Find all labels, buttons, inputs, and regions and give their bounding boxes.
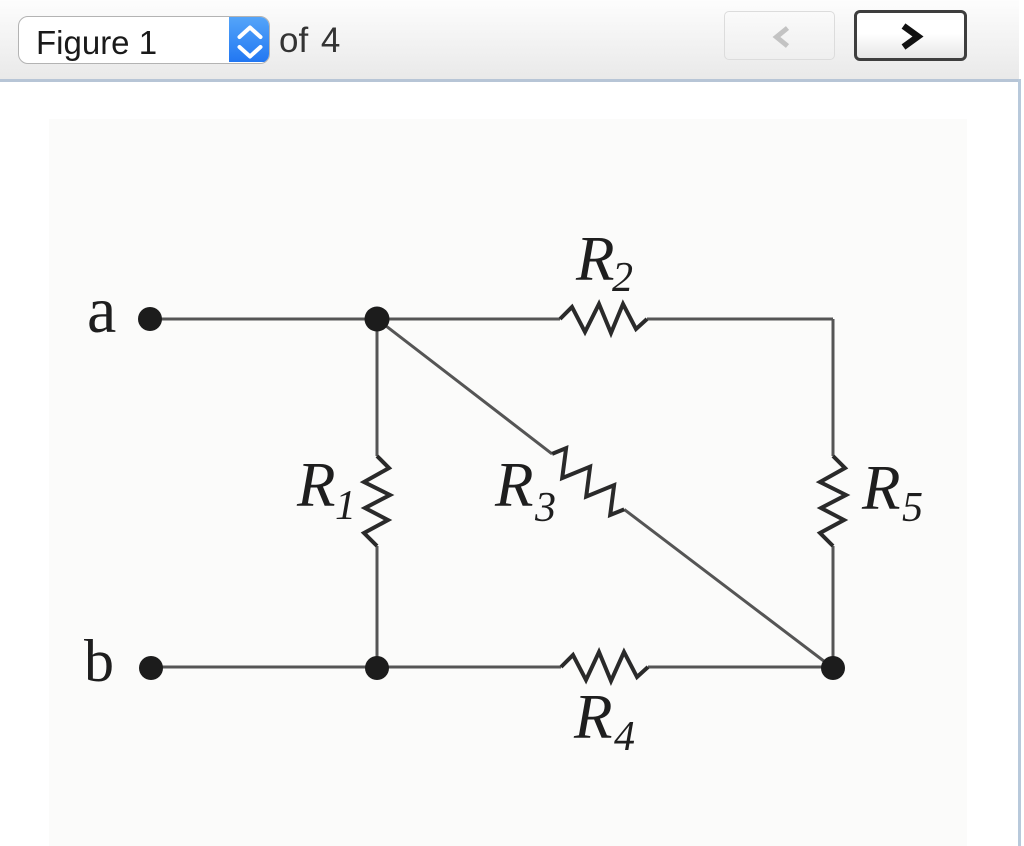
wire: R2 right side to top-right corner: [647, 318, 833, 321]
bottom-right node dot: [821, 656, 845, 680]
select label text: [36, 24, 157, 62]
wire: diagonal top junction to R3: [377, 319, 552, 454]
svg-text:2: 2: [612, 255, 633, 301]
node b terminal dot: [139, 656, 163, 680]
right vertical border line: [1018, 79, 1021, 846]
select stepper (blue): [229, 17, 269, 62]
wire: R4 right side to bottom-right node: [648, 666, 833, 669]
svg-text:R: R: [573, 682, 612, 752]
wire: node b to bottom junction and on to R4: [151, 666, 561, 669]
of 4 label: [279, 21, 340, 61]
svg-text:R: R: [861, 453, 900, 523]
svg-text:R: R: [494, 450, 533, 520]
header separator line: [0, 79, 1021, 82]
svg-text:b: b: [84, 628, 114, 694]
wire: R3 to bottom-right node: [624, 509, 833, 668]
resistor R4 zigzag: [561, 652, 648, 681]
wire: top junction down to R1: [376, 319, 379, 456]
svg-text:R: R: [296, 450, 335, 520]
wire: top-right corner down to R5: [832, 319, 835, 456]
node a terminal dot: [138, 307, 162, 331]
top junction dot: [365, 307, 390, 332]
svg-text:3: 3: [534, 485, 556, 531]
resistor R3 zigzag: [552, 448, 624, 515]
wire: node a to top junction and on to R2: [150, 318, 560, 321]
resistor R2 zigzag: [560, 304, 647, 333]
svg-text:a: a: [87, 274, 116, 347]
next button (active): [854, 10, 967, 61]
svg-text:R: R: [575, 224, 614, 294]
svg-text:5: 5: [902, 485, 923, 531]
figure select dropdown: [18, 16, 270, 64]
resistor R5 zigzag: [820, 456, 846, 546]
svg-text:4: 4: [614, 714, 635, 760]
wire: R1 bottom to bottom junction: [376, 546, 379, 668]
prev button (disabled): [724, 11, 835, 60]
svg-text:1: 1: [335, 483, 356, 529]
header bar: [0, 0, 1019, 79]
bottom junction dot: [365, 656, 389, 680]
resistor R1 zigzag: [364, 456, 390, 546]
wire: R5 bottom to bottom-right node: [832, 546, 835, 668]
figure panel background: [49, 119, 967, 846]
